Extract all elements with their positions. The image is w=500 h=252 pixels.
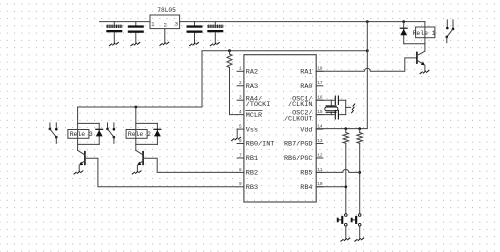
svg-text:RA1: RA1: [300, 69, 312, 77]
ground under regulator: [160, 42, 169, 45]
pin 2 stub: [237, 81, 244, 86]
svg-text:78L05: 78L05: [157, 7, 176, 14]
capacitor C6: [335, 110, 338, 119]
pin 14 stub: [316, 125, 323, 130]
capacitor C1 (polarized): [106, 22, 122, 43]
capacitor C4 (polarized): [207, 22, 223, 43]
svg-text:RB5: RB5: [300, 170, 312, 178]
transistor for Rele 3: [78, 150, 85, 165]
svg-text:12: 12: [317, 153, 323, 158]
relay K coil Rele 2: [126, 107, 151, 150]
wire Q3 base to RB3: [85, 158, 237, 187]
node diode D1 top junction: [402, 20, 405, 23]
pin 12 stub: [316, 153, 323, 158]
svg-text:RB7/PGD: RB7/PGD: [284, 141, 313, 149]
wire Rele 2 diode loop: [136, 123, 158, 144]
op-amp U1 PIC16F628 box: [244, 55, 316, 202]
node +5V / Vdd riser junction: [366, 20, 369, 23]
svg-text:/CLKIN: /CLKIN: [288, 101, 312, 109]
pin 15 stub: [316, 110, 323, 115]
wire R2 to button S1: [345, 143, 347, 213]
wire Q1 emitter to ground: [424, 65, 426, 71]
wire emitter Rele 3 to ground: [78, 165, 80, 171]
pin 8 stub: [237, 168, 244, 173]
relay contact K2: [106, 123, 115, 143]
svg-text:Vss: Vss: [246, 126, 258, 134]
svg-text:5: 5: [239, 125, 242, 130]
svg-text:Rele 2: Rele 2: [128, 131, 151, 138]
ground under Rele 3 transistor: [74, 171, 83, 174]
pin 16 stub: [316, 96, 323, 101]
ground at Vss: [232, 137, 241, 140]
wire Rele 3 diode loop: [78, 123, 100, 144]
svg-text:RB3: RB3: [246, 184, 258, 192]
svg-text:17: 17: [317, 81, 323, 86]
ground under S1: [341, 238, 350, 241]
capacitor C3: [187, 22, 203, 43]
wire OSC1 branch: [316, 99, 346, 101]
node RB4 junction: [344, 185, 347, 188]
resistor R1 (MCLR pull-up): [227, 51, 232, 68]
pin 11 stub: [316, 168, 323, 173]
pin 9 stub: [237, 182, 244, 187]
node riser junction on +5V branch: [366, 49, 369, 52]
svg-text:2: 2: [164, 22, 167, 28]
pin label RA4/TOCKI: [246, 95, 270, 109]
svg-text:MCLR: MCLR: [246, 112, 262, 120]
pin 4 stub: [237, 110, 244, 115]
wire +5V branch rail to relays: [78, 51, 368, 107]
svg-text:RA2: RA2: [246, 69, 258, 77]
pin 1 stub: [237, 67, 244, 72]
relay contact K1: [446, 20, 455, 43]
wire Vss pin 5 to ground: [236, 129, 238, 137]
transistor Q1: [417, 44, 425, 66]
ground under C2: [131, 43, 140, 46]
wire Q2 base to RB2: [143, 158, 237, 172]
svg-text:RB1: RB1: [246, 155, 258, 163]
ground under C1: [109, 43, 118, 46]
wire R1 to MCLR pin 4: [230, 68, 238, 115]
diode D1: [400, 22, 407, 44]
svg-text:1: 1: [151, 21, 154, 27]
ground under Q1: [420, 71, 429, 74]
svg-text:Rele 1: Rele 1: [413, 30, 436, 37]
svg-text:13: 13: [317, 139, 323, 144]
crystal Q1 ceramic resonator: [325, 100, 338, 114]
ground under C4: [210, 43, 219, 46]
wire S1 to ground: [345, 226, 347, 239]
pin 5 stub: [237, 125, 244, 130]
wire +5V rail: [180, 21, 425, 23]
wire oscillator to ground: [346, 106, 351, 108]
wire S2 to ground: [359, 226, 361, 239]
pin 6 stub: [237, 139, 244, 144]
wire OSC2 branch: [316, 114, 346, 116]
svg-text:4: 4: [239, 110, 242, 115]
pin label MCLR (overline): [246, 111, 262, 120]
svg-text:7: 7: [239, 153, 242, 158]
node R1 pull-up junction: [228, 49, 231, 52]
wire emitter Rele 2 to ground: [136, 165, 138, 171]
svg-text:3: 3: [175, 21, 178, 27]
svg-text:9: 9: [239, 182, 242, 187]
svg-text:6: 6: [239, 139, 242, 144]
wire RA1 to Q1 base (hops over Vdd riser): [316, 58, 416, 71]
wire +12V input rail: [100, 21, 150, 23]
svg-text:3: 3: [239, 96, 242, 101]
node RB5 junction: [358, 171, 361, 174]
pushbutton S2: [351, 214, 361, 226]
pin 18 stub: [316, 67, 323, 72]
wire Vdd to +5V rail: [316, 22, 367, 129]
pin 17 stub: [316, 81, 323, 86]
svg-text:8: 8: [239, 168, 242, 173]
svg-text:Rele 3: Rele 3: [70, 131, 93, 138]
svg-text:RB2: RB2: [246, 170, 258, 178]
wire K1 coil bottom: [404, 43, 425, 45]
wire R3 to button S2: [359, 143, 361, 213]
pin 10 stub: [316, 182, 323, 187]
node relay K2 supply junction: [134, 106, 137, 109]
relay K coil Rele 3: [68, 107, 93, 150]
svg-text:RA0: RA0: [300, 83, 312, 91]
svg-text:RA3: RA3: [246, 83, 258, 91]
capacitor C5: [335, 96, 338, 105]
pin label OSC2/CLKOUT: [284, 110, 313, 124]
capacitor C2: [128, 22, 144, 43]
relay K1 coil Rele 1: [413, 22, 436, 44]
ground under S2: [355, 238, 364, 241]
pin label OSC1/CLKIN: [288, 95, 312, 109]
pin 13 stub: [316, 139, 323, 144]
svg-text:Vdd: Vdd: [300, 126, 312, 134]
pin 7 stub: [237, 153, 244, 158]
wire RB5 to R3 leg (hops over R2 leg): [316, 169, 360, 172]
resistor R2: [343, 129, 348, 144]
ground under C3: [190, 43, 199, 46]
node R3 top junction: [358, 127, 361, 130]
voltage regulator IC1 78L05: [150, 7, 180, 29]
ground under Rele 2 transistor: [132, 171, 141, 174]
svg-text:/TOCKI: /TOCKI: [246, 101, 270, 109]
transistor for Rele 2: [136, 150, 143, 165]
wire RB4 to R2 leg: [316, 186, 346, 188]
svg-text:1: 1: [239, 67, 242, 72]
node R2 top junction: [344, 127, 347, 130]
wire oscillator right leg: [345, 100, 347, 114]
svg-text:2: 2: [239, 81, 242, 86]
svg-text:/CLKOUT: /CLKOUT: [284, 115, 313, 123]
wire regulator pin2 to ground: [164, 29, 166, 43]
diode for Rele 2: [154, 123, 161, 144]
diode for Rele 3: [96, 123, 103, 144]
svg-text:RB4: RB4: [300, 184, 312, 192]
svg-text:RB6/PGC: RB6/PGC: [284, 155, 313, 163]
pushbutton S1: [337, 214, 347, 226]
pin 3 stub: [237, 96, 244, 101]
relay contact K3: [49, 123, 58, 143]
svg-text:RB0/INT: RB0/INT: [246, 141, 275, 149]
resistor R3: [357, 129, 362, 144]
ground at oscillator (rotated): [352, 104, 355, 113]
